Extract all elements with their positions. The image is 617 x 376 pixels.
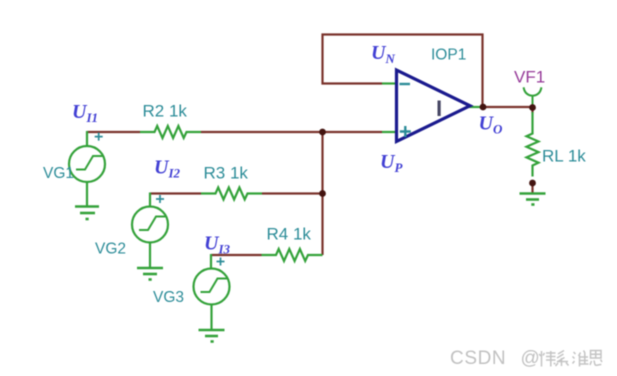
ground (VG1) xyxy=(75,207,99,220)
op-amp IOP1 xyxy=(397,70,471,142)
junction node at RL/ground xyxy=(529,180,536,187)
svg-text:VG3: VG3 xyxy=(153,289,184,306)
voltage source VG1 xyxy=(69,131,105,206)
junction node at VF1/RL xyxy=(529,104,536,111)
voltage source VG3 xyxy=(194,254,230,330)
svg-text:VG1: VG1 xyxy=(43,165,74,182)
svg-text:VG2: VG2 xyxy=(95,241,126,258)
plus polarity mark VG1 xyxy=(95,133,103,141)
watermark CJK glyph xi xyxy=(556,351,569,367)
resistor R3 xyxy=(201,188,262,200)
wire RL to ground xyxy=(531,183,533,193)
ground (VG2) xyxy=(137,268,163,280)
wire output to VF1/RL xyxy=(483,106,533,108)
plus polarity mark VG2 xyxy=(156,195,164,203)
watermark CJK glyph qing xyxy=(539,351,556,367)
ground (RL) xyxy=(520,194,546,205)
svg-text:@: @ xyxy=(521,348,540,369)
wire VG1 to R2 xyxy=(87,131,140,133)
watermark CJK glyph si xyxy=(590,351,602,366)
svg-text:RL 1k: RL 1k xyxy=(542,147,586,166)
op-amp IOP1 inverting input pin stub xyxy=(382,82,398,84)
resistor R4 xyxy=(262,249,323,261)
op-amp IOP1 non-inverting pin mark xyxy=(400,126,411,137)
plus polarity mark VG3 xyxy=(217,258,225,266)
wire junction column xyxy=(321,132,323,255)
svg-text:VF1: VF1 xyxy=(514,68,545,87)
voltage probe VF1 xyxy=(524,87,542,107)
svg-text:R3 1k: R3 1k xyxy=(204,164,249,183)
svg-text:CSDN: CSDN xyxy=(450,348,506,369)
junction node at op-amp output xyxy=(480,104,487,111)
wire R2 to op-amp non-inverting input xyxy=(201,131,382,133)
op-amp IOP1 inverting pin mark xyxy=(400,83,411,85)
voltage source VG2 xyxy=(132,193,168,269)
op-amp IOP1 output pin stub xyxy=(469,106,484,108)
watermark CSDN xyxy=(450,348,540,369)
wire R3 to junction column xyxy=(262,192,323,194)
resistor RL xyxy=(527,112,539,177)
op-amp IOP1 non-inverting input pin stub xyxy=(382,131,398,133)
wire feedback loop output to inverting input xyxy=(323,35,483,108)
junction node at R3/column xyxy=(319,190,326,197)
svg-text:IOP1: IOP1 xyxy=(431,47,466,64)
wire VG2 to R3 xyxy=(150,192,201,194)
ground (VG3) xyxy=(199,330,225,342)
resistor R2 xyxy=(140,126,201,138)
wire VG3 to R4 xyxy=(211,254,262,256)
svg-text:R4 1k: R4 1k xyxy=(267,225,312,244)
svg-text:R2 1k: R2 1k xyxy=(143,102,188,121)
watermark CJK glyph huai xyxy=(573,351,589,367)
junction node at R2/column xyxy=(319,129,326,136)
wire VF1 node to RL xyxy=(531,107,533,113)
